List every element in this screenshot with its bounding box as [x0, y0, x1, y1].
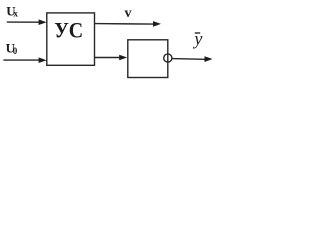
svg-text:y: y — [192, 29, 202, 49]
svg-text:УС: УС — [54, 18, 83, 43]
svg-text:0: 0 — [13, 46, 18, 56]
svg-text:v: v — [125, 6, 132, 21]
svg-text:x: x — [13, 10, 18, 20]
